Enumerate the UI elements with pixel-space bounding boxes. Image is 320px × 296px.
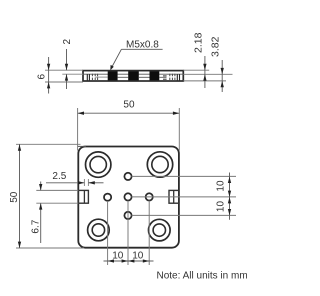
dim 2.18 extension top-right <box>183 69 209 71</box>
dim 2.18 arrow up <box>203 74 206 80</box>
right thread dashes <box>169 74 171 81</box>
svg-text:2.5: 2.5 <box>52 171 66 182</box>
bottom dim extension x128 <box>127 201 129 265</box>
dim 2 arrow up <box>65 74 68 80</box>
left tab divider <box>83 190 85 203</box>
leader line <box>111 49 122 69</box>
dim 2.18 line <box>204 56 206 88</box>
right tab wall 1 <box>176 74 178 80</box>
dim 6 arrow bottom <box>47 82 50 88</box>
svg-text:3.82: 3.82 <box>210 36 222 57</box>
bottom dim extension x149.2 <box>148 201 150 265</box>
corner hole top-left inner <box>90 156 106 172</box>
dim 3.82 arrow down <box>221 68 224 74</box>
corner hole bottom-right outer <box>149 219 171 241</box>
dim 6.7 line lower <box>40 203 42 243</box>
dim 2.5 line right <box>88 182 103 184</box>
corner hole top-right inner <box>152 156 168 172</box>
dim 2.5 tick right <box>87 179 89 186</box>
dim 10 right line <box>229 173 231 220</box>
corner hole bottom-left inner <box>92 224 104 236</box>
label underline <box>121 48 162 50</box>
dim 10 right arrow 2 up <box>228 197 231 203</box>
dim 10 bottom arrow 1 right <box>122 259 128 262</box>
svg-text:50: 50 <box>123 100 135 111</box>
left tab wall 1 <box>86 74 88 80</box>
right edge tab <box>169 190 179 203</box>
corner hole top-right outer <box>147 152 172 177</box>
bottom extension right <box>183 80 226 82</box>
dim 10 bottom arrow 1 left <box>108 259 114 262</box>
dim 6.7 extension bottom <box>36 202 78 204</box>
step line inside bar <box>83 73 183 75</box>
dim 3.82 line <box>221 60 223 92</box>
hatch block B1 <box>108 71 118 80</box>
right tab divider <box>173 190 175 203</box>
dim 10 bottom line <box>104 260 154 262</box>
dim 10 bottom arrow 2 right <box>143 259 149 262</box>
step extension right <box>183 73 232 75</box>
dim 6.7 extension top <box>36 189 78 191</box>
dim 6 line <box>48 57 50 94</box>
hole gap1 lines <box>118 76 129 78</box>
svg-text:2.18: 2.18 <box>192 32 204 53</box>
corner hole bottom-left outer <box>88 219 110 241</box>
dim 2.5 tick left <box>83 179 85 186</box>
dim 10 right arrow 1 up <box>228 177 231 183</box>
dim 50 top line <box>78 112 180 114</box>
dim 10 bottom arrow 2 left <box>128 259 134 262</box>
dim 50 left extension bottom <box>16 247 84 249</box>
svg-text:6: 6 <box>37 74 48 80</box>
plate outline <box>78 147 179 248</box>
dim 6 extension bottom <box>45 81 83 83</box>
section bar outline <box>83 71 183 81</box>
dim 10 right arrow 1 down <box>228 191 231 197</box>
small hole bottom <box>124 212 131 219</box>
svg-text:2: 2 <box>62 39 73 45</box>
dim 2.18 arrow down <box>203 64 206 70</box>
svg-text:10: 10 <box>215 180 226 192</box>
svg-text:10: 10 <box>215 201 226 213</box>
svg-text:Note: All units in mm: Note: All units in mm <box>157 270 248 281</box>
dim 2 line upper <box>66 49 68 70</box>
dim 3.82 arrow up <box>221 81 224 87</box>
dim 6 extension top <box>45 69 83 71</box>
step line extension left <box>62 73 83 75</box>
dim 50 left arrow bottom <box>18 242 21 248</box>
dim 2 line lower <box>66 74 68 89</box>
dim 50 left line <box>19 144 21 248</box>
left thread dashes <box>91 74 93 81</box>
hatch block B3 <box>150 71 160 80</box>
right dim extension y197 <box>132 196 237 198</box>
dim 2.5 arrow left <box>78 181 84 184</box>
svg-text:10: 10 <box>112 250 124 261</box>
left tab wall 2 <box>88 74 90 80</box>
dim 6 arrow top <box>47 64 50 70</box>
svg-text:50: 50 <box>9 191 20 203</box>
dim 2.5 line left <box>46 182 84 184</box>
leader arrowhead <box>110 65 114 70</box>
corner hole bottom-right inner <box>153 224 165 236</box>
bottom dim extension x107.6 <box>107 201 109 265</box>
dim 2 arrow down <box>65 64 68 70</box>
small hole left <box>104 194 111 201</box>
hole gap2 lines <box>139 76 150 78</box>
hatch block B2 <box>128 71 139 80</box>
dim 2.5 arrow right <box>88 181 94 184</box>
left hole minor line <box>96 76 108 78</box>
right dim extension y176 <box>132 175 237 177</box>
corner hole top-left outer <box>86 152 111 177</box>
dim 50 top arrow left <box>78 112 84 115</box>
small hole center <box>124 193 131 200</box>
right tab wall 2 <box>179 74 181 80</box>
dim 50 top extension left <box>77 108 79 151</box>
right thread ticks <box>163 75 167 77</box>
dim 50 left extension top <box>16 143 81 145</box>
dim 50 top arrow right <box>173 112 179 115</box>
dim 6.7 line upper <box>40 182 42 191</box>
dim 10 right arrow 2 down <box>228 209 231 215</box>
svg-text:10: 10 <box>132 250 144 261</box>
svg-text:6.7: 6.7 <box>31 219 42 233</box>
small hole top <box>124 173 131 180</box>
small hole right <box>146 193 153 200</box>
dim 50 top extension right <box>178 108 180 151</box>
hole gap3 lines <box>159 76 166 78</box>
dim 50 left arrow top <box>18 144 21 150</box>
corner stub top-left <box>78 145 86 147</box>
right dim extension y215 <box>132 214 237 216</box>
dim 6.7 arrow down <box>39 184 42 190</box>
left edge tab <box>78 190 88 203</box>
dim 6.7 arrow up <box>39 203 42 209</box>
